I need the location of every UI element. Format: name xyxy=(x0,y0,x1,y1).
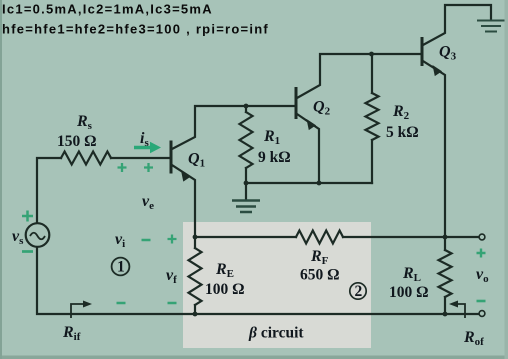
svg-text:5 kΩ: 5 kΩ xyxy=(386,124,419,141)
is current arrow xyxy=(134,142,161,153)
resistor RF zigzag xyxy=(296,231,343,244)
vf minus bottom xyxy=(168,302,177,305)
wire: bottom rail from vs xyxy=(37,247,445,314)
wire: Rs to Q1 base xyxy=(111,157,171,159)
wire: output node to vo+ terminal xyxy=(445,236,479,238)
node dot: RL bottom xyxy=(443,312,448,317)
svg-text:100 Ω: 100 Ω xyxy=(205,281,245,298)
wire: RE top lead xyxy=(194,237,196,248)
wire: Q2 emitter down to mid rail xyxy=(297,114,319,183)
node dot: Q2 emitter on mid rail xyxy=(317,181,322,186)
circled 1 xyxy=(112,258,130,276)
wire: R2 top lead xyxy=(371,54,373,93)
vi plus top xyxy=(118,163,127,172)
node dot: RE bottom xyxy=(193,312,198,317)
wire: Q1 emitter down to node xyxy=(172,165,195,237)
node dot: output node xyxy=(443,235,448,240)
wire: RE bottom lead xyxy=(194,305,196,314)
wire: RL bottom lead xyxy=(444,297,446,314)
Rof output arrow xyxy=(449,301,465,319)
wire: RL top lead xyxy=(444,237,446,250)
vo minus xyxy=(477,300,486,303)
wire: R2 bottom lead xyxy=(371,140,373,183)
resistor R1 zigzag xyxy=(240,112,253,168)
terminal: vo- xyxy=(479,311,485,317)
svg-text:100 Ω: 100 Ω xyxy=(389,284,429,301)
circled 2 xyxy=(350,283,366,300)
svg-text:1: 1 xyxy=(117,259,125,276)
svg-text:Ic1=0.5mA,Ic2=1mA,Ic3=5mA: Ic1=0.5mA,Ic2=1mA,Ic3=5mA xyxy=(2,2,213,17)
svg-text:hfe=hfe1=hfe2=hfe3=100 , rpi=r: hfe=hfe1=hfe2=hfe3=100 , rpi=ro=inf xyxy=(2,22,269,37)
svg-text:β circuit: β circuit xyxy=(248,325,304,342)
node dot: R2 top xyxy=(369,52,374,57)
resistor R2 zigzag xyxy=(366,93,379,140)
svg-text:9 kΩ: 9 kΩ xyxy=(258,149,291,166)
wire: RF right wire to output node xyxy=(343,236,445,238)
transistor Q1 xyxy=(171,141,191,182)
ve minus xyxy=(142,239,151,242)
ground stub below R1 xyxy=(245,183,247,199)
beta circuit highlight box xyxy=(183,222,371,348)
node dot: Q1 emitter / RE / RF xyxy=(193,235,198,240)
wire: Q2 collector up to top rail xyxy=(297,54,422,98)
resistor RL zigzag xyxy=(439,250,452,297)
wire: RF left wire from emitter node xyxy=(195,236,296,238)
wire: R1 top lead xyxy=(245,106,247,112)
vf plus xyxy=(168,235,177,244)
wire: R1 bottom lead xyxy=(245,168,247,183)
resistor RE zigzag xyxy=(189,248,202,305)
vs plus xyxy=(22,211,33,222)
svg-text:650 Ω: 650 Ω xyxy=(300,267,340,284)
wire: mid ground rail xyxy=(246,182,372,184)
bottom edge band xyxy=(0,356,508,359)
wire: Q1 collector up and right to Q2 base xyxy=(172,106,296,149)
vo plus xyxy=(477,249,486,258)
node dot: R1 bottom / ground xyxy=(244,181,249,186)
voltage source vs xyxy=(26,223,50,247)
wire: Q3 emitter down to output node xyxy=(423,61,445,237)
polarity marks green xyxy=(22,163,486,303)
Rif input arrow xyxy=(71,301,92,319)
vs minus xyxy=(22,250,33,253)
svg-text:2: 2 xyxy=(355,283,363,300)
resistor Rs zigzag xyxy=(61,152,111,165)
transistor Q2 xyxy=(296,87,316,130)
wire: vs top to Rs xyxy=(37,158,61,223)
ground G2 top right xyxy=(477,21,505,32)
terminal: vo+ xyxy=(479,234,485,240)
right edge band xyxy=(505,0,508,359)
node dot: R1 top xyxy=(244,104,249,109)
ground G1 below R1 xyxy=(232,201,260,213)
vi minus bottom xyxy=(117,302,126,305)
left edge band xyxy=(0,0,2,359)
transistor Q3 xyxy=(422,37,442,76)
wire: Q3 collector to top ground xyxy=(423,5,491,45)
wire: bottom rail to vo- terminal xyxy=(445,313,479,315)
svg-text:150 Ω: 150 Ω xyxy=(57,133,97,150)
ve plus top xyxy=(144,163,153,172)
